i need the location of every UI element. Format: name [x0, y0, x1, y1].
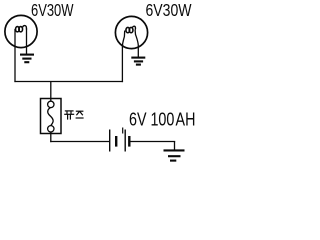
svg-text:6V30W: 6V30W: [146, 0, 192, 20]
svg-text:6V30W: 6V30W: [31, 0, 74, 20]
svg-text:6V 100 AH: 6V 100 AH: [129, 110, 195, 131]
